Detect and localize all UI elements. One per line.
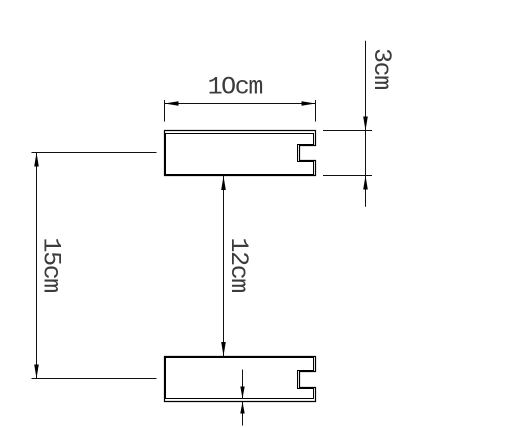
wall thickness dimension: lower arrowhead pointing up [240,402,244,414]
dimension 3cm: lower arrowhead pointing up [363,176,368,190]
dimension 10cm: left extension line [164,100,166,122]
svg-text:3cm: 3cm [367,48,396,89]
profile bar 1 (top) outer outline with right-side notch [165,131,316,176]
dimension 15cm: bottom extension line [32,378,157,380]
wall thickness dimension: upper arrowhead pointing down [240,387,244,399]
profile bar 2 (bottom) inner outline [166,358,314,399]
dimension 12cm: bottom arrowhead pointing down [221,342,226,356]
dimension 10cm: right arrowhead [302,101,316,106]
dimension 15cm: top arrowhead pointing up [34,153,39,167]
dimension 15cm: bottom arrowhead pointing down [34,365,39,379]
dimension 3cm: upper dimension line [365,41,367,207]
svg-text:12cm: 12cm [224,238,253,293]
dimension 10cm: dimension line [165,103,316,105]
wall thickness dimension: lower leader line [242,402,244,426]
dimension 3cm: top extension line [323,130,372,132]
dimension 10cm: left arrowhead [165,101,179,106]
dimension 3cm: bottom extension line [323,175,372,177]
dimension 12cm: top arrowhead pointing up [221,176,226,190]
profile bar 2 (bottom) outer outline with right-side notch [165,357,316,402]
dimension 15cm: dimension line [36,153,38,379]
dimension 15cm: top extension line [32,152,157,154]
dimension 3cm: upper arrowhead pointing down [363,117,368,131]
svg-text:1Ocm: 1Ocm [208,73,263,102]
profile bar 1 (top) inner outline [166,134,314,175]
dimension 12cm: dimension line between bars [223,176,225,356]
svg-text:15cm: 15cm [37,238,66,293]
dimension 10cm: right extension line [315,100,317,122]
wall thickness dimension: upper leader line [242,370,244,399]
